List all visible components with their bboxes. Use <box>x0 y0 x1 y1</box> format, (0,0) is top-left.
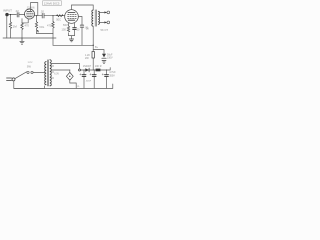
wire primary bottom B+ <box>92 26 94 70</box>
cathode stub <box>22 19 28 23</box>
svg-text:150: 150 <box>62 28 67 32</box>
title box <box>43 1 62 6</box>
svg-text:1M: 1M <box>13 24 18 28</box>
capacitor C4 50uF <box>93 50 104 54</box>
node F junction <box>106 69 107 70</box>
svg-text:B+: B+ <box>95 46 99 49</box>
svg-text:10K R: 10K R <box>95 65 102 68</box>
wire to transformer <box>33 71 45 73</box>
switch contacts <box>27 71 29 73</box>
node E junction <box>94 69 95 70</box>
cathode resistor R2 <box>21 19 23 38</box>
node D junction <box>83 69 84 70</box>
switch SW lever <box>15 72 27 79</box>
capacitor C7 <box>106 70 108 88</box>
svg-text:50C: 50C <box>56 17 61 21</box>
wire plate V2 to OT <box>72 5 94 10</box>
resistor R7 1.2K filter <box>92 52 94 59</box>
wire secondary top lead <box>52 64 80 71</box>
resistor R4 470K grid <box>57 15 64 17</box>
ground <box>20 38 24 44</box>
node C junction <box>52 15 53 16</box>
capacitor C6 <box>93 70 95 88</box>
wire <box>9 14 17 16</box>
tube V2 50C5 <box>65 10 79 24</box>
jack sleeve wire <box>6 16 8 38</box>
svg-text:470K: 470K <box>47 23 53 27</box>
ground <box>69 39 73 42</box>
svg-text:VOL: VOL <box>39 25 45 29</box>
node A junction <box>10 14 11 15</box>
svg-text:350V: 350V <box>109 74 115 77</box>
wire secondary top <box>99 11 107 13</box>
svg-text:5K OT: 5K OT <box>101 28 109 32</box>
svg-text:150V: 150V <box>107 56 113 59</box>
cathode resistor R6 <box>68 23 70 36</box>
wire B+ line <box>53 44 93 46</box>
ground rail <box>3 37 56 39</box>
svg-text:1N4007: 1N4007 <box>83 65 92 68</box>
power transformer T1 <box>45 62 46 85</box>
svg-text:INPUT: INPUT <box>3 9 12 13</box>
wire <box>19 14 24 16</box>
terminal OUT1 <box>107 11 110 14</box>
wire plug bottom <box>14 81 45 89</box>
wire cathode join <box>69 36 75 39</box>
svg-text:2W: 2W <box>85 57 89 60</box>
svg-text:40UF: 40UF <box>86 81 92 83</box>
svg-text:5K: 5K <box>86 28 89 31</box>
volume pot R3 <box>36 16 38 34</box>
svg-text:PL: PL <box>77 86 80 88</box>
PSU top rail <box>52 69 70 71</box>
pilot lamp I1 <box>69 70 71 72</box>
svg-text:20: 20 <box>77 28 80 31</box>
svg-text:117V: 117V <box>28 62 33 64</box>
screen wire <box>78 17 82 46</box>
output transformer T2 <box>92 10 93 26</box>
wire plate V1 to node <box>31 3 38 16</box>
svg-text:SW: SW <box>27 65 32 68</box>
resistor R5 470K to B+ <box>52 16 54 46</box>
wire pot bottom <box>37 33 54 35</box>
svg-text:12AV6 50C5: 12AV6 50C5 <box>44 1 60 5</box>
wire secondary bottom <box>99 21 107 23</box>
wire coupling <box>35 15 65 17</box>
terminal OUT2 <box>107 21 110 24</box>
AC plug P1 <box>7 78 12 81</box>
svg-text:.02: .02 <box>40 9 44 13</box>
resistor R1 1M <box>10 15 12 38</box>
bypass capacitor C3 <box>74 23 76 36</box>
svg-text:470: 470 <box>25 24 30 28</box>
svg-text:6.3V: 6.3V <box>54 74 59 76</box>
PSU bottom rail <box>14 84 113 88</box>
node B junction <box>36 15 37 16</box>
